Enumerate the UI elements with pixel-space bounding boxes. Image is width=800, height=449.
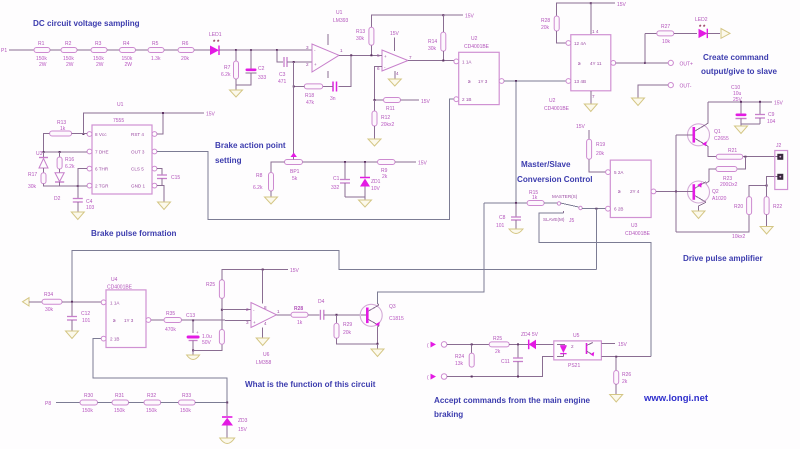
svg-text:6.2k: 6.2k: [65, 164, 75, 170]
svg-text:30k: 30k: [428, 46, 437, 52]
svg-text:2W: 2W: [39, 62, 47, 68]
wire V+: [262, 270, 264, 304]
wire: [72, 133, 87, 135]
pin 2: [87, 183, 157, 188]
svg-text:C3: C3: [279, 72, 286, 78]
ground: [230, 85, 243, 97]
wire Q2 base: [687, 190, 693, 192]
svg-text:C15: C15: [171, 175, 180, 181]
resistor R22: [764, 197, 782, 215]
junction: [344, 161, 346, 163]
svg-text:≥: ≥: [578, 61, 581, 66]
resistor R30: [80, 393, 98, 414]
ground under U6: [256, 328, 269, 346]
wire slave select net down: [595, 209, 597, 270]
svg-text:R28: R28: [541, 18, 550, 24]
input arrow terminal: [23, 298, 30, 306]
op-amp U6: [246, 303, 280, 367]
junction: [515, 202, 517, 204]
svg-text:RST 4: RST 4: [131, 132, 144, 137]
svg-text:30k: 30k: [45, 307, 54, 313]
svg-text:+: +: [384, 54, 387, 59]
wire: [447, 343, 489, 345]
wire: [277, 50, 283, 62]
svg-text:≥: ≥: [618, 189, 621, 194]
ground: [760, 215, 773, 234]
svg-text:LM393: LM393: [333, 18, 349, 24]
svg-text:150k: 150k: [114, 408, 125, 414]
svg-text:15V: 15V: [290, 268, 300, 274]
power rail 15V U4 gates: [557, 2, 627, 16]
svg-text:2k: 2k: [622, 379, 628, 385]
resistor R25 (2k): [489, 336, 509, 355]
svg-text:OUT+: OUT+: [680, 61, 694, 67]
svg-text:R11: R11: [386, 106, 395, 112]
svg-text:C8: C8: [499, 215, 506, 221]
wire Q3 collector up: [378, 303, 380, 305]
wire: [56, 402, 80, 404]
wire: [219, 49, 236, 51]
resistor R25 (pull-up): [206, 280, 224, 299]
svg-text:R35: R35: [166, 311, 175, 317]
wire gate out to bases: [656, 190, 687, 192]
svg-text:U1: U1: [336, 10, 343, 16]
junction: [595, 208, 597, 210]
junction: [374, 99, 376, 101]
IC U3 gate 2A/2B box: [610, 160, 651, 237]
ground: [509, 220, 523, 234]
junction: [517, 343, 519, 345]
wire: [9, 49, 34, 51]
resistor R2: [61, 41, 77, 68]
svg-text:471: 471: [278, 79, 287, 85]
svg-text:U4: U4: [111, 277, 118, 283]
svg-text:P1: P1: [1, 48, 7, 54]
capacitor C11: [501, 344, 523, 376]
wire up to R27: [644, 33, 646, 63]
svg-text:2: 2: [571, 344, 574, 349]
svg-text:2W: 2W: [66, 62, 74, 68]
svg-text:R25: R25: [206, 282, 215, 288]
pin 12 4A: [566, 41, 587, 46]
wire bottom row to pin2: [44, 184, 88, 186]
svg-text:104: 104: [767, 119, 776, 125]
pin 7: [87, 149, 157, 154]
wire: [161, 179, 163, 186]
ground: [692, 211, 705, 219]
wire: [294, 85, 305, 87]
svg-text:1 1A: 1 1A: [110, 300, 120, 305]
junction: [377, 343, 379, 345]
svg-text:20k: 20k: [541, 25, 550, 31]
wire 555 output loop: [157, 99, 456, 219]
wire R23 left to Q2 emitter: [706, 169, 716, 184]
capacitor C15 on pin5: [157, 169, 180, 181]
label Accept commands from the main engine: [434, 396, 591, 419]
zener U3: [36, 151, 48, 173]
ground: [220, 438, 235, 444]
capacitor C3: [278, 57, 287, 85]
svg-text:-: -: [253, 308, 255, 313]
svg-text:R6: R6: [182, 41, 189, 47]
terminal plus: [427, 342, 447, 350]
capacitor C13: [186, 313, 212, 350]
junction: [293, 61, 295, 63]
wire: [324, 314, 361, 316]
wire bottom row: [447, 356, 554, 376]
resistor R7: [221, 61, 239, 79]
svg-text:7555: 7555: [113, 118, 124, 124]
svg-text:50V: 50V: [202, 340, 212, 346]
resistor (divider): [219, 330, 224, 345]
wire to BP1 wiper: [293, 62, 295, 157]
transistor Q1: [688, 124, 729, 147]
ground: [610, 384, 623, 402]
resistor R31: [112, 393, 129, 414]
wire J2 pin2: [767, 177, 778, 186]
wire: [766, 186, 768, 197]
wire: [544, 202, 557, 204]
svg-text:C9: C9: [768, 112, 775, 118]
svg-text:U2: U2: [549, 98, 556, 104]
wire: [395, 161, 416, 163]
svg-text:Q1: Q1: [714, 129, 721, 135]
svg-text:D2: D2: [54, 196, 61, 202]
terminal OUT-: [668, 83, 692, 90]
svg-text:101: 101: [82, 318, 91, 324]
junction: [590, 2, 592, 4]
svg-text:www.longi.net: www.longi.net: [643, 393, 709, 404]
svg-text:Drive pulse amplifier: Drive pulse amplifier: [683, 254, 763, 263]
svg-text:What is the function of this c: What is the function of this circuit: [245, 380, 376, 389]
power stub U1A: [327, 34, 329, 78]
wire 4Y output: [616, 62, 668, 64]
svg-text:470k: 470k: [165, 327, 176, 333]
wire: [161, 402, 179, 404]
svg-text:R2: R2: [65, 41, 72, 47]
junction: [293, 85, 295, 87]
svg-text:MASTER(S): MASTER(S): [552, 194, 578, 199]
zener ZD4: [521, 332, 539, 349]
svg-text:R33: R33: [182, 393, 191, 399]
wire: [29, 301, 42, 303]
resistor R14: [428, 32, 446, 52]
svg-text:R24: R24: [455, 354, 464, 360]
pin 6 2B: [606, 206, 624, 211]
wire: [182, 319, 252, 321]
svg-text:U6: U6: [263, 352, 270, 358]
svg-text:1Y 3: 1Y 3: [124, 318, 134, 323]
wire opto collector to 15V: [601, 342, 627, 348]
resistor R3: [91, 41, 107, 68]
junction: [515, 80, 517, 82]
svg-text:1Y 3: 1Y 3: [478, 79, 488, 84]
svg-text:* *: * *: [213, 40, 220, 46]
svg-text:10kx2: 10kx2: [732, 234, 746, 240]
svg-text:R3: R3: [95, 41, 102, 47]
capacitor C9: [755, 102, 776, 125]
svg-text:R21: R21: [728, 148, 737, 154]
svg-text:R20: R20: [734, 204, 743, 210]
svg-text:2 1B: 2 1B: [110, 337, 119, 342]
wire inverting input: [375, 67, 383, 101]
junction: [471, 343, 473, 345]
svg-text:C12: C12: [81, 311, 90, 317]
svg-text:15V: 15V: [465, 14, 475, 20]
ground: [66, 320, 79, 339]
resistor R27: [657, 24, 674, 45]
wire: [129, 402, 144, 404]
svg-text:15V: 15V: [774, 100, 784, 106]
svg-text:15V: 15V: [617, 2, 627, 8]
resistor R8: [253, 173, 274, 192]
svg-text:2W: 2W: [96, 62, 104, 68]
junction: [221, 309, 223, 311]
junction node to comparator: [276, 49, 278, 51]
svg-text:R30: R30: [84, 393, 93, 399]
svg-text:1: 1: [277, 309, 280, 314]
wire Q1 emitter: [706, 145, 716, 157]
capacitor C12: [67, 302, 91, 324]
wire slave line from U4 input: [72, 250, 596, 301]
svg-text:braking: braking: [434, 410, 463, 419]
resistor R34: [42, 292, 62, 313]
wire: [373, 54, 382, 56]
resistor R1: [34, 41, 50, 68]
op-amp U1 label: [333, 10, 349, 24]
wire: [536, 343, 554, 345]
wire U4 pin2 feedback to P8: [93, 339, 227, 402]
pin 5 2A: [606, 170, 625, 175]
svg-text:15V: 15V: [390, 31, 400, 37]
wire: [107, 49, 120, 51]
svg-text:30k: 30k: [28, 184, 37, 190]
resistor R15: [527, 190, 544, 206]
svg-text:* *: * *: [699, 25, 706, 31]
wire OUT- to ground: [638, 85, 668, 98]
capacitor D4: [318, 299, 325, 320]
ground: [158, 202, 171, 210]
ground: [265, 191, 278, 204]
wire: [136, 49, 149, 51]
svg-text:PS21: PS21: [568, 363, 580, 369]
svg-text:6 2B: 6 2B: [614, 207, 623, 212]
svg-text:R12: R12: [381, 115, 390, 121]
junction: [192, 349, 194, 351]
wire: [582, 208, 608, 210]
terminal minus: [427, 374, 447, 381]
resistor R28 (1k): [291, 306, 308, 326]
wire to inverting input: [222, 309, 251, 311]
svg-text:≥: ≥: [113, 318, 116, 323]
junction: [370, 54, 372, 56]
svg-text:1: 1: [340, 48, 343, 53]
ground: [187, 350, 200, 359]
wire to divider resistor: [193, 344, 222, 350]
svg-text:7 DHE: 7 DHE: [95, 150, 109, 155]
opto transistor: [587, 343, 595, 357]
resistor R4: [120, 41, 136, 68]
capacitor C8: [496, 203, 521, 229]
wire bottom feedback rail: [676, 215, 749, 233]
svg-text:2 1B: 2 1B: [462, 97, 471, 102]
svg-text:12 4A: 12 4A: [574, 41, 587, 46]
svg-text:10V: 10V: [371, 186, 381, 192]
svg-text:1 4: 1 4: [592, 29, 599, 34]
ground: [71, 202, 84, 220]
svg-text:-: -: [314, 48, 316, 53]
svg-text:4: 4: [264, 321, 267, 326]
resistor R5: [148, 41, 164, 62]
resistor R16: [57, 152, 75, 170]
svg-text:DC circuit voltage sampling: DC circuit voltage sampling: [33, 19, 140, 28]
svg-text:R29: R29: [343, 322, 352, 328]
wire: [164, 49, 178, 51]
resistor R26: [614, 357, 632, 385]
junction: [644, 62, 646, 64]
wire: [77, 49, 91, 51]
svg-text:2k: 2k: [495, 349, 501, 355]
opto LED: [557, 344, 574, 356]
potentiometer BP1: [285, 153, 303, 183]
junction: [350, 54, 352, 56]
svg-text:Q2: Q2: [712, 189, 719, 195]
svg-text:47k: 47k: [306, 100, 315, 106]
svg-text:Master/Slave: Master/Slave: [521, 160, 571, 169]
wire: [674, 32, 697, 34]
wire gate1 out: [504, 80, 570, 82]
svg-text:Conversion Control: Conversion Control: [517, 175, 593, 184]
resistor R24: [455, 344, 474, 367]
capacitor C2: [246, 50, 267, 81]
junction: [759, 101, 761, 103]
wire pin7 row: [44, 151, 88, 153]
wire net R15 row: [484, 202, 527, 204]
svg-text:20k: 20k: [181, 56, 190, 62]
svg-text:CD4001BE: CD4001BE: [544, 106, 570, 112]
wire: [44, 134, 50, 153]
junction: [442, 60, 444, 62]
resistor R35: [164, 311, 182, 333]
svg-text:LED1: LED1: [209, 32, 222, 38]
svg-text:≥: ≥: [468, 79, 471, 84]
svg-text:R7: R7: [224, 65, 231, 71]
svg-text:Brake pulse formation: Brake pulse formation: [91, 229, 177, 238]
svg-text:+: +: [253, 320, 256, 325]
svg-text:Create command: Create command: [703, 53, 769, 62]
svg-text:15V: 15V: [206, 112, 216, 118]
svg-text:20k: 20k: [596, 151, 605, 157]
pin 3 1Y U4: [124, 318, 151, 323]
wire RST to rail: [157, 113, 163, 134]
svg-text:C13: C13: [186, 313, 195, 319]
wire down to R23: [737, 157, 745, 169]
svg-text:R17: R17: [28, 172, 37, 178]
wire: [345, 196, 365, 198]
svg-text:30k: 30k: [356, 36, 365, 42]
svg-text:(: (: [427, 375, 429, 381]
svg-text:R31: R31: [115, 393, 124, 399]
wire pin6 to junction: [78, 169, 87, 198]
svg-text:2 TGR: 2 TGR: [95, 184, 109, 189]
svg-text:150k: 150k: [180, 408, 191, 414]
wire: [221, 310, 223, 330]
transistor Q2: [688, 181, 727, 203]
svg-text:R32: R32: [147, 393, 156, 399]
wire: [589, 159, 608, 172]
LED LED1: [209, 32, 222, 55]
svg-text:D4: D4: [318, 299, 325, 305]
svg-text:ZD1: ZD1: [371, 179, 381, 185]
svg-text:20kx2: 20kx2: [381, 122, 395, 128]
svg-text:CD4001BE: CD4001BE: [107, 285, 133, 291]
IC U2 gate 4A/4B box: [544, 29, 611, 112]
pin 6: [87, 166, 157, 171]
junction: [740, 101, 742, 103]
svg-text:R22: R22: [773, 204, 782, 210]
svg-text:20k: 20k: [343, 330, 352, 336]
wire: [557, 31, 570, 43]
wire: [98, 402, 113, 404]
svg-text:R19: R19: [596, 142, 605, 148]
svg-text:R27: R27: [661, 24, 670, 30]
ground: [371, 344, 384, 357]
svg-text:15V: 15V: [576, 124, 586, 130]
svg-text:5k: 5k: [292, 176, 298, 182]
wire: [337, 338, 378, 344]
svg-text:R16: R16: [65, 157, 74, 163]
svg-text:2: 2: [306, 62, 309, 67]
wire: [221, 298, 223, 309]
svg-text:C2: C2: [258, 66, 265, 72]
junction: [162, 112, 164, 114]
pin 13 4B: [566, 79, 586, 84]
svg-text:C2655: C2655: [714, 136, 729, 142]
svg-text:13k: 13k: [455, 361, 464, 367]
svg-text:C11: C11: [501, 359, 510, 365]
junction: [615, 356, 617, 358]
svg-text:U3: U3: [36, 151, 43, 157]
junction: [77, 185, 79, 187]
wire: [50, 49, 61, 51]
svg-text:1k: 1k: [60, 126, 66, 132]
pin 3 1Y: [478, 79, 504, 84]
wire: [236, 73, 251, 85]
svg-text:BP1: BP1: [290, 169, 300, 175]
pin 2 1B U4: [101, 336, 119, 341]
wire Q3 base: [361, 314, 366, 316]
svg-text:2Y 4: 2Y 4: [630, 189, 640, 194]
junction: [250, 49, 252, 51]
wire: [303, 161, 378, 163]
ground: [735, 124, 748, 134]
capacitor C1: [331, 162, 350, 197]
wire: [374, 100, 376, 111]
wire: [235, 50, 237, 61]
junction: [192, 319, 194, 321]
label Create command output/give to slave: [701, 53, 778, 76]
svg-text:setting: setting: [215, 156, 242, 165]
wire: [271, 162, 285, 173]
wire: [375, 99, 384, 101]
wire U6 out: [277, 314, 292, 316]
node 15V R19: [576, 124, 589, 139]
svg-text:150k: 150k: [146, 408, 157, 414]
svg-text:J2: J2: [776, 143, 782, 149]
transistor Q3: [360, 304, 404, 327]
svg-text:Brake action point: Brake action point: [215, 141, 286, 150]
svg-text:U3: U3: [631, 223, 638, 229]
